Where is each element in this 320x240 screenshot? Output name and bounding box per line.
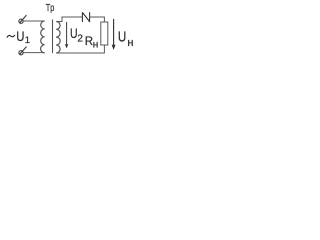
transformer primary winding L1 <box>41 21 45 53</box>
terminal X2 (bottom-left input clamp) <box>19 47 27 55</box>
transformer secondary winding L2 <box>56 22 60 54</box>
label ~U1 (source voltage) <box>7 28 30 46</box>
resistor RH body <box>101 22 108 45</box>
svg-text:1: 1 <box>25 35 30 46</box>
label U2 <box>70 25 83 44</box>
wire top-left (terminal to primary coil) <box>23 20 44 22</box>
svg-text:н: н <box>127 37 133 49</box>
terminal X1 (top-left input clamp) <box>19 15 27 23</box>
label RH (load resistor) <box>85 36 99 51</box>
arrow U2 (secondary voltage, points down) <box>65 22 68 49</box>
svg-text:U: U <box>16 28 24 44</box>
wire resistor bottom to secondary coil <box>56 45 104 53</box>
wire secondary top (coil to diode) <box>56 17 82 22</box>
svg-text:Tp: Tp <box>46 2 55 14</box>
svg-text:U: U <box>118 29 126 45</box>
wire diode to load corner <box>90 17 105 22</box>
label UH (output voltage) <box>118 29 134 49</box>
svg-text:н: н <box>93 40 99 51</box>
transformer core <box>52 20 54 54</box>
svg-text:2: 2 <box>77 34 83 45</box>
wire bottom-left (terminal to primary coil) <box>23 52 44 54</box>
diode VD <box>82 12 89 22</box>
arrow UH (output voltage, points down) <box>112 19 116 50</box>
